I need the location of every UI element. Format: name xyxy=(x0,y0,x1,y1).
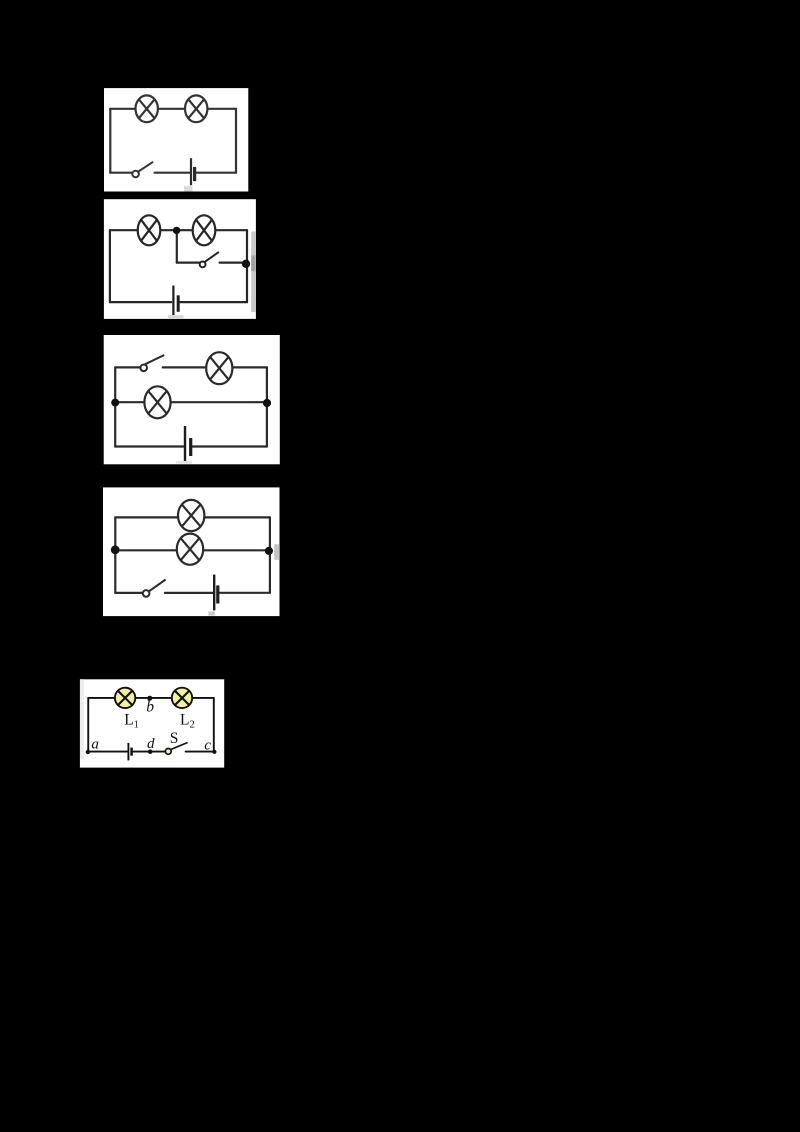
node dot left xyxy=(111,545,120,554)
battery cell (panel 4) xyxy=(214,575,218,611)
switch S (panel 5) xyxy=(165,743,187,755)
wire right vertical xyxy=(213,698,215,752)
wire bottom: switch to c xyxy=(186,751,215,753)
wire bottom rail middle segment xyxy=(165,592,213,594)
lamp right (panel 2) xyxy=(193,215,216,245)
wire top rail xyxy=(115,516,270,518)
switch (panel 2) xyxy=(200,252,219,267)
switch (panel 4) xyxy=(143,580,166,597)
wire bottom rail right segment xyxy=(219,592,270,594)
panel 3: parallel circuit, switch in one branch xyxy=(103,335,280,465)
wire top rail xyxy=(88,697,214,699)
scan artifact smudge xyxy=(176,461,192,464)
panel 1: series circuit xyxy=(104,88,249,192)
wire left vertical xyxy=(87,698,89,752)
lamp L2 xyxy=(172,688,192,708)
svg-text:b: b xyxy=(146,699,154,716)
lamp L1 xyxy=(115,688,135,708)
panel 5: labelled circuit a b c d with L1 L2 and switch S xyxy=(79,679,225,769)
wire left vertical xyxy=(114,367,116,446)
wire bottom rail left segment xyxy=(115,592,142,594)
panel 2: circuit with short-circuit switch branch xyxy=(103,199,257,319)
lamp middle branch (panel 3) xyxy=(144,386,170,418)
lamp middle branch (panel 4) xyxy=(177,534,203,565)
svg-text:S: S xyxy=(170,730,179,747)
wire branch vertical from node xyxy=(176,232,178,263)
scan artifact gray square xyxy=(184,186,193,192)
node dot a xyxy=(86,750,90,754)
lamp top branch (panel 3) xyxy=(206,352,232,384)
wire bottom: battery to d to switch xyxy=(134,751,166,753)
wire bottom right segment xyxy=(196,172,236,174)
wire right vertical xyxy=(235,109,237,173)
wire middle rail xyxy=(115,401,267,403)
svg-text:a: a xyxy=(91,737,99,753)
node dot c xyxy=(212,750,216,754)
scan artifact gray square bottom xyxy=(168,315,184,319)
wire bottom left segment xyxy=(110,172,132,174)
node dot on right vertical xyxy=(242,260,250,268)
scan artifact faint left bar xyxy=(80,679,84,759)
node dot right xyxy=(263,399,271,407)
battery cell (panel 5) xyxy=(128,743,131,761)
wire top rail left of switch xyxy=(115,366,140,368)
panel 4: two lamps parallel, switch+battery in main xyxy=(102,487,280,617)
wire bottom rail left segment xyxy=(115,445,184,447)
lamp left (panel 2) xyxy=(138,215,161,245)
wire right vertical xyxy=(266,367,268,446)
scan artifact gray bar right xyxy=(274,544,280,560)
switch (panel 3) xyxy=(140,355,164,371)
lamp right (panel 1) xyxy=(185,95,207,122)
wire left vertical xyxy=(114,517,116,593)
wire bottom rail right segment xyxy=(192,445,267,447)
wire top rail xyxy=(110,229,247,231)
node dot left xyxy=(111,399,119,407)
wire bottom left segment xyxy=(110,301,171,303)
wire bottom right segment xyxy=(180,301,247,303)
node junction dot between lamps xyxy=(173,227,180,234)
wire bottom middle segment xyxy=(155,172,190,174)
wire top rail xyxy=(110,108,236,110)
battery cell (panel 3) xyxy=(185,426,191,462)
scan artifact darker gray segment xyxy=(251,256,255,272)
wire middle rail xyxy=(115,549,270,551)
scan artifact gray square bottom xyxy=(208,612,214,616)
switch S (panel 1) xyxy=(132,162,153,178)
wire branch horizontal to switch xyxy=(177,262,200,264)
wire right vertical xyxy=(246,230,248,302)
node dot d xyxy=(148,749,153,754)
scan artifact gray bar right xyxy=(251,232,255,313)
lamp top branch (panel 4) xyxy=(178,500,204,531)
wire left vertical xyxy=(109,230,111,302)
node dot right xyxy=(265,547,273,555)
wire left vertical xyxy=(109,109,111,173)
node dot b xyxy=(147,696,152,701)
battery cell (panel 2) xyxy=(173,286,178,316)
wire top rail right of switch xyxy=(163,366,267,368)
wire branch switch to right node xyxy=(220,262,244,264)
lamp left (panel 1) xyxy=(136,95,158,122)
battery cell (panel 1) xyxy=(191,158,195,185)
svg-text:d: d xyxy=(147,736,155,752)
wire right vertical xyxy=(269,517,271,592)
wire bottom: a to battery xyxy=(88,751,127,753)
svg-text:c: c xyxy=(204,738,211,754)
